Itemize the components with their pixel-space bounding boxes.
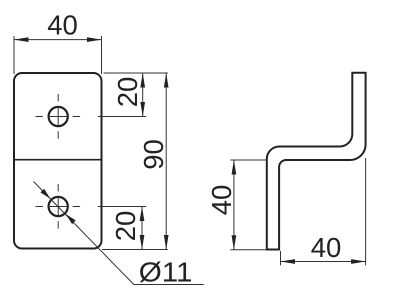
svg-text:40: 40	[206, 185, 237, 216]
dim 40 top: extension line left	[13, 36, 15, 74]
hole H1 centerline vertical	[57, 94, 59, 139]
hole H2	[49, 197, 68, 216]
dim 20 upper: arrow down	[140, 102, 145, 117]
dim 20 upper: arrow up	[140, 73, 145, 88]
svg-text:Ø11: Ø11	[139, 256, 193, 287]
dim 40 top: arrow left	[14, 37, 29, 42]
hole H2 centerline vertical	[57, 184, 59, 229]
dim 20 lower: dimension line	[141, 207, 143, 250]
dim 40 vertical side: arrow up	[232, 160, 237, 175]
svg-text:20: 20	[110, 211, 141, 242]
dim 20 lower: arrow down	[140, 235, 145, 250]
dim 90: dimension line	[165, 73, 167, 250]
dim 40 top: dimension line	[14, 39, 102, 41]
dim 40 vertical side: ext line bottom	[230, 249, 266, 251]
leader line Ø11	[34, 182, 204, 285]
dim 40 horizontal side: dimension line	[281, 261, 366, 263]
ext line from hole H2 center	[98, 206, 146, 208]
svg-text:40: 40	[47, 9, 78, 40]
ext line from hole H1 center	[98, 116, 146, 118]
ext line from plate bottom right	[102, 249, 168, 251]
dim 40 top: extension line right	[101, 36, 103, 74]
svg-text:40: 40	[311, 232, 342, 263]
leader arrow at hole lower-right	[66, 214, 76, 224]
dim 20 lower: arrow up	[140, 207, 145, 222]
dim 40 vertical side: dimension line	[233, 160, 235, 250]
dim 90: arrow up	[164, 73, 169, 88]
dim 40 horizontal side: arrow left	[281, 259, 296, 264]
Z profile side view	[267, 73, 366, 250]
hole H2 centerline horizontal	[36, 206, 81, 208]
dim 40 vertical side: arrow down	[232, 235, 237, 250]
svg-text:90: 90	[138, 139, 169, 170]
dim 90: arrow down	[164, 235, 169, 250]
hole H1 centerline horizontal	[36, 116, 81, 118]
dim 40 top: arrow right	[87, 37, 102, 42]
plate front view outline	[14, 73, 102, 249]
dim 40 horizontal side: arrow right	[351, 259, 366, 264]
ext line from plate top right	[104, 72, 168, 74]
bend line across plate	[14, 159, 102, 161]
dim 40 horizontal side: ext line left	[280, 251, 282, 265]
dim 40 vertical side: ext line top	[230, 159, 266, 161]
dim 20 upper: dimension line	[142, 73, 144, 117]
leader arrow at hole upper-left	[40, 189, 50, 199]
dim 40 horizontal side: ext line right	[365, 158, 367, 265]
hole H1	[49, 107, 68, 126]
svg-text:20: 20	[112, 77, 143, 108]
